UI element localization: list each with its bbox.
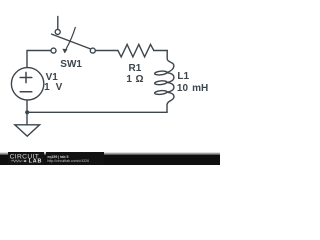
switch SW1 top stub wire (57, 17, 59, 30)
label V1 value 1 V (44, 83, 62, 93)
CircuitLab logo box (8, 152, 45, 165)
wire: V1 top to switch left terminal (27, 51, 50, 68)
schematic canvas (0, 0, 220, 165)
V1 minus sign (20, 91, 32, 93)
CircuitLab logo artwork (7, 152, 45, 165)
switch SW1 left terminal (51, 48, 56, 53)
logo resistor squiggle (11, 160, 23, 162)
label V1 (46, 73, 58, 83)
label R1 (129, 64, 142, 74)
label L1 (177, 72, 189, 82)
resistor R1 zigzag (118, 44, 154, 57)
svg-text:LAB: LAB (29, 159, 43, 165)
switch SW1 lever (52, 34, 91, 49)
inductor L1 coil (167, 51, 174, 73)
label R1 value 1 ohm (126, 75, 143, 85)
logo component block (24, 160, 27, 162)
V1 plus sign (20, 72, 32, 82)
watermark text (47, 156, 68, 160)
wire: switch right terminal to resistor (96, 50, 118, 52)
wire: resistor to inductor top corner (154, 50, 168, 52)
label L1 value 10 mH (177, 84, 208, 94)
switch SW1 top terminal (55, 29, 60, 34)
voltage source V1 circle (11, 68, 43, 100)
switch SW1 arrowhead (62, 49, 67, 54)
junction node dot (25, 110, 29, 114)
label SW1 (60, 60, 82, 70)
switch SW1 right terminal (90, 48, 95, 53)
wire: V1 bottom to junction to ground (26, 100, 28, 125)
ground symbol (15, 125, 40, 136)
url text box (46, 152, 105, 165)
switch SW1 actuation arrow arc (66, 27, 75, 48)
watermark bar (0, 152, 220, 154)
bottom wire (27, 111, 167, 113)
